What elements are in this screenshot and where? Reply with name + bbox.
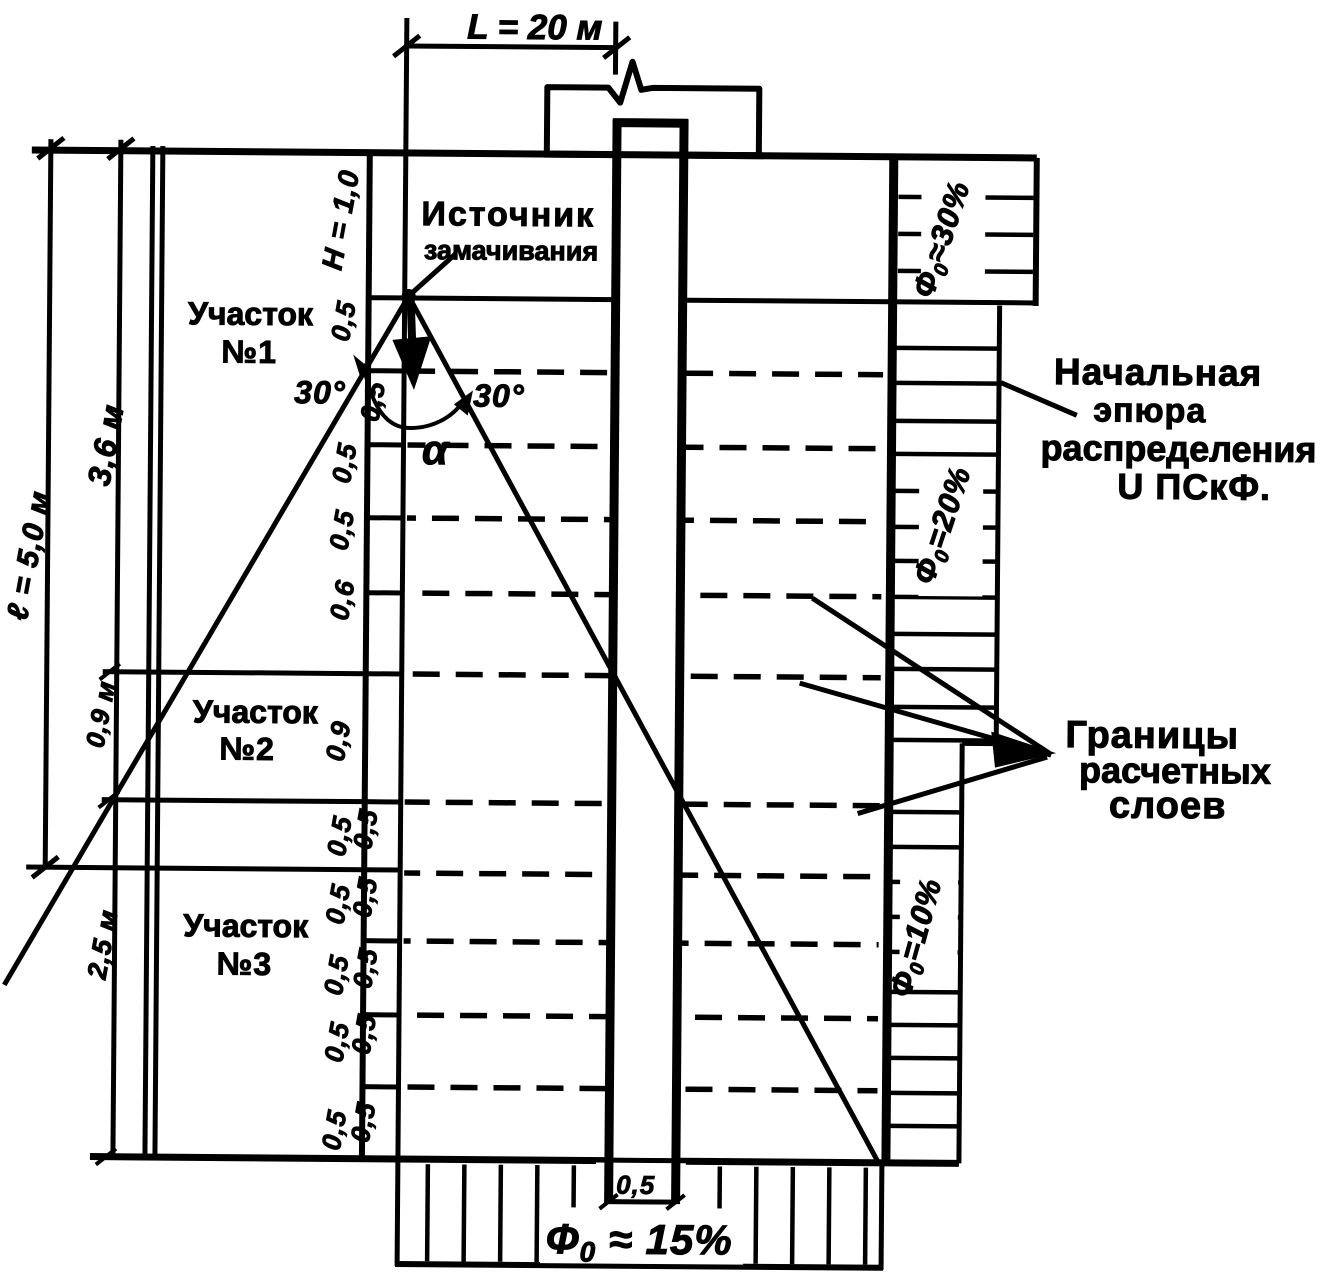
- column width dimension 0,5: [609, 1199, 676, 1205]
- leaders to layer boundaries: [811, 598, 1050, 753]
- svg-text:Начальная: Начальная: [1054, 351, 1263, 394]
- angle arc: [363, 364, 464, 429]
- break bracket over column: [547, 61, 760, 156]
- svg-text:Источник: Источник: [421, 195, 595, 234]
- bottom boundary line: [90, 1157, 959, 1164]
- svg-text:Ф0 ≈ 15%: Ф0 ≈ 15%: [546, 1215, 733, 1268]
- dashed layer boundary y520: [367, 515, 403, 520]
- solid level line at source depth: [369, 298, 612, 300]
- svg-text:слоев: слоев: [1109, 785, 1227, 828]
- left wetting spread line 30deg: [4, 293, 408, 988]
- svg-text:30°: 30°: [294, 374, 346, 410]
- dimension L=20m line: [407, 46, 617, 48]
- leader to source point: [410, 254, 455, 295]
- svg-text:№2: №2: [219, 731, 275, 767]
- dashed layer boundary y676: [366, 671, 402, 676]
- moisture strip 20%: [996, 306, 999, 744]
- svg-text:L = 20 м: L = 20 м: [467, 7, 603, 47]
- leader to initial moisture text: [1001, 383, 1077, 416]
- dashed layer boundary y804: [365, 799, 401, 804]
- left boundary double line: [145, 146, 153, 1157]
- svg-text:α: α: [422, 426, 450, 473]
- dimension line depth vertical: [113, 140, 121, 1160]
- label F0=20%: [918, 460, 983, 596]
- column right edge: [676, 119, 685, 1204]
- dashed layer boundary y875: [404, 873, 879, 877]
- svg-text:0,5: 0,5: [616, 1170, 655, 1200]
- wetting depth line l=5,0m bottom: [26, 867, 400, 870]
- ground surface top line: [32, 150, 1037, 158]
- white box for label F0=15%: [540, 1207, 743, 1265]
- svg-text:распределения: распределения: [1040, 427, 1316, 470]
- moisture strip 10%: [959, 743, 962, 1163]
- section boundary 1-2 solid left part: [103, 672, 366, 674]
- svg-text:Участок: Участок: [188, 295, 314, 332]
- redraw surface line over column: [544, 154, 764, 156]
- source point node: [402, 289, 416, 303]
- dimension line l=5,0m vertical: [45, 139, 51, 869]
- svg-text:U ПСкФ.: U ПСкФ.: [1117, 466, 1271, 508]
- svg-text:эпюра: эпюра: [1093, 391, 1206, 430]
- dashed layer boundary y595: [366, 590, 402, 595]
- label F0=30%: [921, 170, 986, 298]
- bottom strip vertical hatch: [425, 1164, 430, 1261]
- label F0=10%: [899, 860, 958, 987]
- dashed layer boundary y1017: [363, 1012, 399, 1017]
- svg-text:Участок: Участок: [193, 693, 319, 730]
- column left edge: [609, 119, 618, 1204]
- right wetting spread line 30deg: [402, 296, 885, 1162]
- svg-text:Участок: Участок: [183, 907, 309, 944]
- moisture profile strip 30% box: [886, 157, 894, 1164]
- tick at depth-dim top: [108, 138, 134, 159]
- column top: [613, 118, 688, 128]
- dashed layer boundary y1089: [362, 1084, 398, 1089]
- dashed layer boundary y447: [368, 442, 404, 447]
- svg-text:№1: №1: [221, 334, 277, 370]
- bottom strip outline: [395, 1159, 401, 1266]
- section boundary 2-3 solid left part: [102, 800, 365, 802]
- main section left edge: [362, 150, 370, 1159]
- svg-text:№3: №3: [217, 946, 273, 982]
- vertical line through source: [398, 18, 407, 1159]
- white box for column end and 0,5 dim: [596, 1163, 686, 1212]
- column white interior: [613, 126, 680, 1158]
- dashed layer boundary y943: [364, 938, 400, 943]
- down arrow at source: [410, 300, 412, 346]
- dashed layer boundary y373: [368, 368, 404, 373]
- tick at l-dim top: [38, 138, 64, 159]
- svg-text:30°: 30°: [473, 378, 525, 414]
